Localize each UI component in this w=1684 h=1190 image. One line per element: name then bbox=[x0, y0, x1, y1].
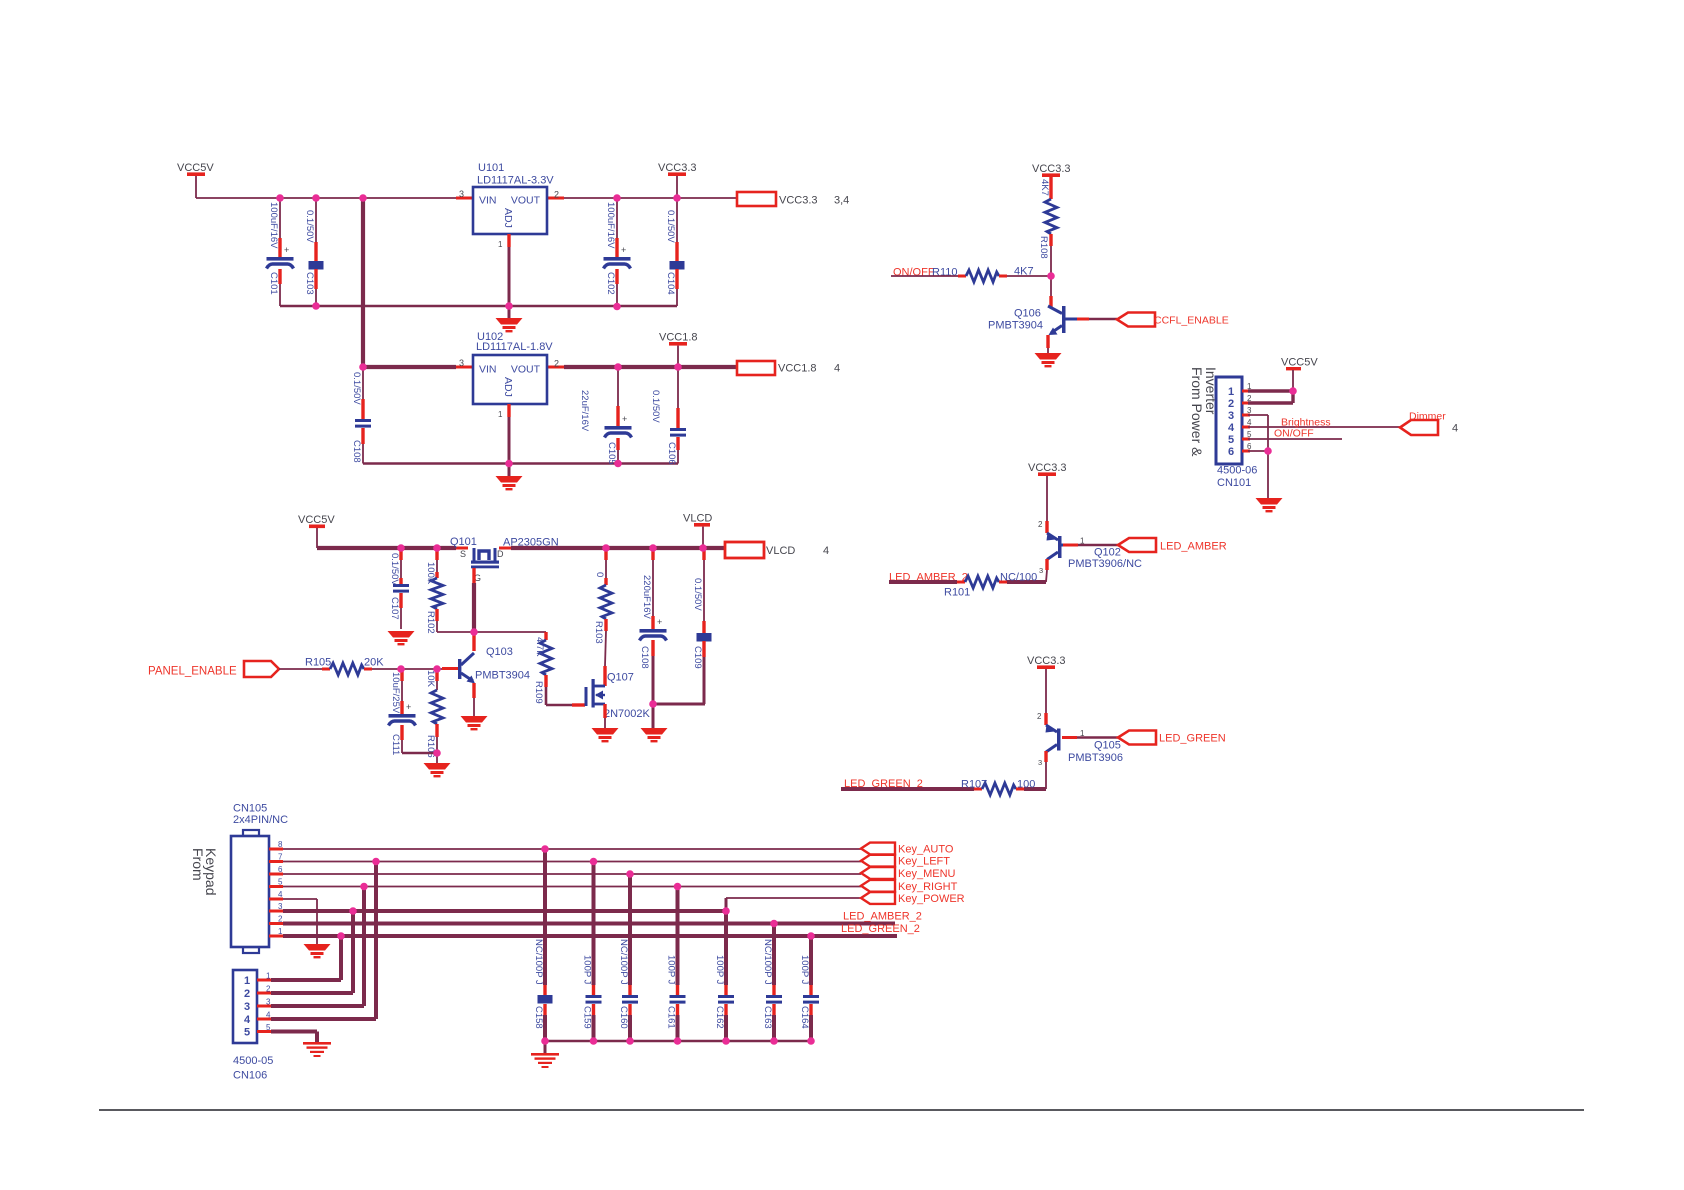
svg-text:3: 3 bbox=[459, 189, 464, 199]
svg-text:Q107: Q107 bbox=[607, 672, 634, 684]
svg-text:100uF/16V: 100uF/16V bbox=[268, 202, 279, 249]
svg-text:D: D bbox=[497, 549, 504, 559]
svg-text:C160: C160 bbox=[618, 1006, 629, 1029]
svg-text:Key_RIGHT: Key_RIGHT bbox=[898, 881, 958, 893]
svg-text:R108: R108 bbox=[1038, 236, 1049, 259]
svg-text:5: 5 bbox=[244, 1027, 250, 1039]
svg-text:4: 4 bbox=[266, 1011, 271, 1020]
svg-text:R102: R102 bbox=[425, 611, 436, 634]
svg-text:5: 5 bbox=[1247, 430, 1252, 439]
svg-text:0.1/50V: 0.1/50V bbox=[304, 210, 315, 243]
svg-text:C162: C162 bbox=[714, 1006, 725, 1029]
svg-text:100P J: 100P J bbox=[714, 955, 725, 985]
svg-text:2: 2 bbox=[1228, 398, 1234, 410]
svg-text:100P J: 100P J bbox=[799, 955, 810, 985]
svg-text:R105: R105 bbox=[305, 657, 331, 669]
svg-text:5: 5 bbox=[266, 1023, 271, 1032]
svg-text:0.1/50V: 0.1/50V bbox=[692, 578, 703, 611]
svg-text:1: 1 bbox=[498, 410, 503, 419]
svg-text:+: + bbox=[406, 702, 411, 712]
svg-text:CN106: CN106 bbox=[233, 1070, 267, 1082]
svg-text:VIN: VIN bbox=[479, 364, 497, 376]
svg-text:0.1/50V: 0.1/50V bbox=[351, 372, 362, 405]
svg-text:CN101: CN101 bbox=[1217, 477, 1251, 489]
svg-text:C161: C161 bbox=[666, 1006, 677, 1029]
svg-text:From Power &: From Power & bbox=[1189, 367, 1205, 457]
svg-text:PMBT3904: PMBT3904 bbox=[988, 320, 1043, 332]
svg-text:ADJ: ADJ bbox=[502, 377, 514, 397]
svg-text:10K: 10K bbox=[425, 670, 436, 688]
svg-text:3: 3 bbox=[244, 1001, 250, 1013]
svg-text:C111: C111 bbox=[390, 734, 401, 755]
svg-text:+: + bbox=[622, 414, 627, 424]
svg-text:Q106: Q106 bbox=[1014, 308, 1041, 320]
svg-text:2: 2 bbox=[554, 359, 559, 369]
svg-text:3,4: 3,4 bbox=[834, 195, 849, 207]
svg-text:0.1/50V: 0.1/50V bbox=[650, 390, 661, 423]
svg-text:C159: C159 bbox=[582, 1006, 593, 1029]
svg-text:NC/100P J: NC/100P J bbox=[618, 939, 629, 985]
svg-text:VOUT: VOUT bbox=[511, 195, 541, 207]
svg-text:R103: R103 bbox=[593, 621, 604, 644]
svg-text:4: 4 bbox=[1247, 418, 1252, 427]
svg-text:Q102: Q102 bbox=[1094, 547, 1121, 559]
svg-text:C108: C108 bbox=[351, 440, 362, 463]
svg-text:C164: C164 bbox=[799, 1006, 810, 1029]
svg-text:1: 1 bbox=[1228, 386, 1234, 398]
svg-text:4K7: 4K7 bbox=[1039, 179, 1050, 196]
svg-text:VCC3.3: VCC3.3 bbox=[1032, 163, 1071, 175]
svg-text:3: 3 bbox=[1039, 566, 1043, 575]
svg-text:0.1/50V: 0.1/50V bbox=[389, 553, 400, 586]
svg-text:PANEL_ENABLE: PANEL_ENABLE bbox=[148, 666, 237, 678]
svg-text:C163: C163 bbox=[762, 1006, 773, 1029]
svg-text:4.7K: 4.7K bbox=[534, 637, 545, 657]
svg-text:Dimmer: Dimmer bbox=[1409, 411, 1446, 423]
svg-text:7: 7 bbox=[278, 853, 283, 862]
svg-text:LED_AMBER: LED_AMBER bbox=[1160, 541, 1227, 553]
svg-text:10uF/25V: 10uF/25V bbox=[390, 672, 401, 714]
svg-text:+: + bbox=[284, 245, 289, 255]
svg-text:6: 6 bbox=[278, 865, 283, 874]
svg-text:1: 1 bbox=[1080, 537, 1085, 546]
svg-text:Q105: Q105 bbox=[1094, 740, 1121, 752]
svg-text:3: 3 bbox=[459, 358, 464, 368]
svg-text:C107: C107 bbox=[389, 597, 400, 620]
svg-text:Q103: Q103 bbox=[486, 646, 513, 658]
svg-text:2: 2 bbox=[1038, 520, 1043, 529]
svg-text:1: 1 bbox=[1080, 729, 1085, 738]
svg-text:NC/100P J: NC/100P J bbox=[762, 939, 773, 985]
svg-text:220uF16V: 220uF16V bbox=[641, 575, 652, 620]
svg-text:4500-06: 4500-06 bbox=[1217, 465, 1257, 477]
svg-text:2: 2 bbox=[554, 190, 559, 200]
svg-text:Inverter: Inverter bbox=[1203, 367, 1219, 415]
svg-text:1: 1 bbox=[244, 975, 250, 987]
svg-text:S: S bbox=[460, 549, 466, 559]
svg-text:+: + bbox=[657, 617, 662, 627]
svg-text:4: 4 bbox=[823, 545, 829, 557]
svg-text:C106: C106 bbox=[666, 442, 677, 465]
svg-text:PMBT3906: PMBT3906 bbox=[1068, 752, 1123, 764]
svg-text:4500-05: 4500-05 bbox=[233, 1055, 273, 1067]
svg-text:22uF/16V: 22uF/16V bbox=[579, 390, 590, 432]
svg-text:VCC5V: VCC5V bbox=[1281, 357, 1318, 369]
svg-text:U101: U101 bbox=[478, 162, 504, 174]
svg-text:C108: C108 bbox=[639, 646, 650, 669]
svg-text:3: 3 bbox=[266, 998, 271, 1007]
svg-text:5: 5 bbox=[1228, 434, 1234, 446]
svg-text:VCC3.3: VCC3.3 bbox=[779, 195, 818, 207]
svg-text:0.1/50V: 0.1/50V bbox=[665, 210, 676, 243]
svg-text:6: 6 bbox=[1247, 442, 1252, 451]
svg-text:Key_AUTO: Key_AUTO bbox=[898, 844, 954, 856]
svg-text:Key_POWER: Key_POWER bbox=[898, 893, 965, 905]
svg-text:4: 4 bbox=[278, 890, 283, 899]
svg-text:1: 1 bbox=[278, 927, 283, 936]
svg-text:3: 3 bbox=[1247, 406, 1252, 415]
svg-text:R109: R109 bbox=[533, 681, 544, 704]
svg-text:3: 3 bbox=[278, 902, 283, 911]
svg-text:C104: C104 bbox=[665, 272, 676, 295]
svg-text:PMBT3906/NC: PMBT3906/NC bbox=[1068, 558, 1142, 570]
svg-text:2N7002K: 2N7002K bbox=[604, 708, 651, 720]
svg-text:VCC3.3: VCC3.3 bbox=[658, 162, 697, 174]
svg-text:VIN: VIN bbox=[479, 195, 497, 207]
svg-text:NC/100: NC/100 bbox=[1000, 572, 1037, 584]
svg-text:NC/100P J: NC/100P J bbox=[533, 939, 544, 985]
svg-text:R101: R101 bbox=[944, 587, 970, 599]
svg-text:VLCD: VLCD bbox=[766, 545, 795, 557]
svg-text:2x4PIN/NC: 2x4PIN/NC bbox=[233, 814, 288, 826]
svg-text:ADJ: ADJ bbox=[502, 208, 514, 228]
svg-text:100uF/16V: 100uF/16V bbox=[605, 202, 616, 249]
svg-text:CCFL_ENABLE: CCFL_ENABLE bbox=[1154, 315, 1229, 327]
svg-text:2: 2 bbox=[244, 988, 250, 1000]
svg-text:2: 2 bbox=[1037, 712, 1042, 721]
svg-text:20K: 20K bbox=[364, 657, 384, 669]
svg-text:1: 1 bbox=[266, 972, 271, 981]
svg-text:4: 4 bbox=[1228, 422, 1235, 434]
svg-text:C101: C101 bbox=[268, 272, 279, 295]
svg-text:5: 5 bbox=[278, 878, 283, 887]
svg-text:VCC5V: VCC5V bbox=[177, 162, 214, 174]
svg-text:C102: C102 bbox=[605, 272, 616, 295]
svg-text:0: 0 bbox=[594, 572, 605, 577]
svg-text:LD1117AL-3.3V: LD1117AL-3.3V bbox=[477, 175, 554, 187]
svg-text:Q101: Q101 bbox=[450, 536, 477, 548]
svg-text:3: 3 bbox=[1228, 410, 1234, 422]
svg-text:3: 3 bbox=[1038, 758, 1042, 767]
svg-text:100P J: 100P J bbox=[666, 955, 677, 985]
svg-text:LED_GREEN: LED_GREEN bbox=[1159, 733, 1226, 745]
svg-text:100K: 100K bbox=[425, 562, 436, 585]
svg-text:C103: C103 bbox=[304, 272, 315, 295]
svg-text:4: 4 bbox=[834, 363, 840, 375]
svg-text:LED_GREEN_2: LED_GREEN_2 bbox=[841, 923, 920, 935]
svg-text:100: 100 bbox=[1017, 779, 1035, 791]
svg-text:8: 8 bbox=[278, 840, 283, 849]
svg-text:Key_LEFT: Key_LEFT bbox=[898, 856, 950, 868]
svg-text:4: 4 bbox=[1452, 423, 1458, 435]
svg-text:PMBT3904: PMBT3904 bbox=[475, 670, 530, 682]
svg-text:VCC3.3: VCC3.3 bbox=[1027, 655, 1066, 667]
svg-text:4: 4 bbox=[244, 1014, 251, 1026]
svg-text:100P J: 100P J bbox=[582, 955, 593, 985]
svg-text:LED_AMBER_2: LED_AMBER_2 bbox=[843, 911, 922, 923]
svg-text:CN105: CN105 bbox=[233, 803, 267, 815]
svg-text:VCC1.8: VCC1.8 bbox=[659, 332, 698, 344]
svg-text:ON/OFF: ON/OFF bbox=[1274, 428, 1314, 440]
svg-text:VLCD: VLCD bbox=[683, 513, 712, 525]
svg-text:R107: R107 bbox=[961, 779, 987, 791]
svg-text:VCC1.8: VCC1.8 bbox=[778, 363, 817, 375]
svg-text:VCC5V: VCC5V bbox=[298, 514, 335, 526]
svg-text:VOUT: VOUT bbox=[511, 364, 541, 376]
svg-text:+: + bbox=[621, 245, 626, 255]
svg-text:LD1117AL-1.8V: LD1117AL-1.8V bbox=[476, 341, 553, 353]
svg-text:C109: C109 bbox=[692, 646, 703, 669]
svg-text:VCC3.3: VCC3.3 bbox=[1028, 462, 1067, 474]
svg-text:2: 2 bbox=[266, 985, 271, 994]
svg-text:2: 2 bbox=[278, 915, 283, 924]
svg-text:Key_MENU: Key_MENU bbox=[898, 868, 956, 880]
svg-text:6: 6 bbox=[1228, 446, 1234, 458]
svg-text:C158: C158 bbox=[533, 1006, 544, 1029]
svg-text:1: 1 bbox=[498, 240, 503, 249]
svg-text:Keypad: Keypad bbox=[203, 848, 219, 895]
